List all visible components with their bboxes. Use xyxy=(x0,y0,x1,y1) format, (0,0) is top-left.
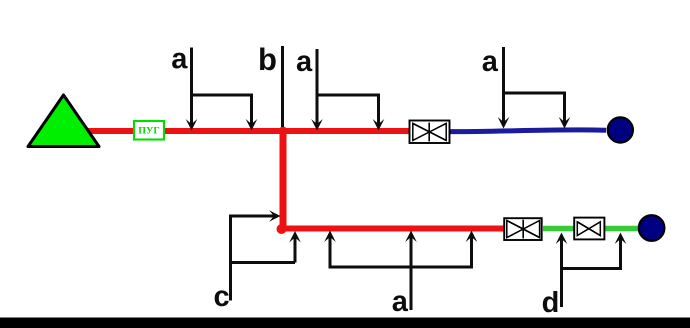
wire: lower red pipe xyxy=(283,226,504,232)
callout a4 (three up arrows on lower pipe) xyxy=(324,231,477,311)
valve V3 (lower right, bowtie) xyxy=(574,218,604,240)
callout d (two up arrows on green pipe) xyxy=(556,233,627,308)
callout a2 (two down arrows on upper pipe) xyxy=(311,49,384,131)
svg-text:d: d xyxy=(542,287,560,319)
callout c (right arrow to riser, up arrow to lower pipe) xyxy=(229,210,301,300)
wire: blue pipe after valve V1 xyxy=(450,130,606,132)
consumer circle lower (navy) xyxy=(639,215,665,241)
svg-text:a: a xyxy=(296,46,313,78)
wire: lower green pipe xyxy=(543,226,639,232)
callout a3 (two down arrows on blue pipe) xyxy=(498,47,571,129)
valve V1 (upper, bowtie with stem) xyxy=(410,121,450,144)
node ПУГ (regulator box) xyxy=(134,121,164,140)
bottom black bar xyxy=(0,318,690,328)
source triangle (gas source) xyxy=(28,95,99,147)
valve V2 (lower left, bowtie with stem) xyxy=(504,218,542,240)
svg-text:a: a xyxy=(392,286,409,318)
svg-text:a: a xyxy=(171,43,188,75)
svg-text:a: a xyxy=(482,46,499,78)
svg-text:ПУГ: ПУГ xyxy=(138,125,159,136)
svg-text:c: c xyxy=(213,281,229,313)
node lower corner dot xyxy=(277,224,287,234)
svg-text:b: b xyxy=(258,42,277,77)
callout b (plain line into junction) xyxy=(281,46,284,127)
consumer circle upper (navy) xyxy=(608,117,633,142)
wire: red vertical pipe xyxy=(280,131,287,228)
node junction B (red tee dot) xyxy=(279,127,288,136)
callout a1 (two down arrows on upper pipe) xyxy=(186,48,258,131)
wire: upper red pipe from source to valve V1 xyxy=(86,128,411,134)
